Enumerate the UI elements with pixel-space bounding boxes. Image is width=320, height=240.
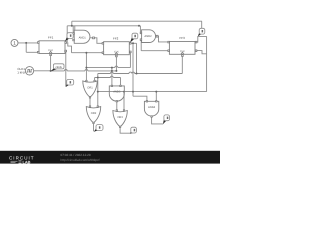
wire FF2 K rail (72, 52, 103, 54)
probe on FF3 Q (198, 28, 205, 36)
footer watermark bar (0, 151, 220, 164)
wire top feedback line (72, 20, 202, 22)
junction source split (25, 42, 27, 44)
wire OR2 output (93, 122, 95, 131)
probe on FF1 Qbar wire end (66, 79, 74, 87)
junction dots (25, 25, 157, 93)
clock source CLK1 (25, 67, 33, 75)
wire FF1 CLK drop (50, 56, 52, 71)
gate OR1 pointing down (83, 81, 97, 97)
junction clock rail AND3 (111, 70, 113, 72)
wire FF2 Q long drop (132, 43, 134, 96)
gate input output pin nubs (86, 80, 157, 127)
gate OR2 pointing down (86, 107, 100, 123)
svg-text:LAB: LAB (23, 159, 31, 164)
wire AND4 output route (152, 117, 164, 124)
wire OR3 right input drop (123, 92, 125, 111)
gate AND2 (142, 30, 156, 43)
wire FF1 Q up to feedback (66, 26, 68, 42)
wire FF2 Q stub (131, 42, 137, 44)
junction clock at FF1 (50, 70, 52, 72)
probe on FF1 Q (65, 33, 73, 42)
svg-text:OR2: OR2 (91, 112, 97, 115)
svg-text:OR1: OR1 (87, 86, 93, 89)
junction FF2 Q branch (132, 42, 134, 44)
junction rail1 AND3 (111, 67, 113, 69)
wire FF2 Qbar rail (86, 66, 130, 68)
junction Q3bar rail left (97, 91, 99, 93)
gate AND4 pointing down (144, 101, 158, 116)
wire AND1 corner drop (74, 26, 76, 30)
wire clock jog and rail 2 with hops (98, 57, 183, 74)
svg-text:1 kHz: 1 kHz (17, 70, 25, 74)
svg-text:AND1: AND1 (79, 37, 87, 40)
svg-text:07:02:41 / 2022.12.20: 07:02:41 / 2022.12.20 (61, 153, 91, 157)
gate OR3 pointing down (113, 111, 127, 127)
junction K rail OR1 (85, 52, 87, 54)
svg-text:AND4: AND4 (148, 106, 156, 109)
wire FF3 Qbar jog to right rail (196, 51, 207, 54)
svg-text:AND2: AND2 (144, 35, 152, 38)
svg-text:http://circuitlab.com/c/69kpcf: http://circuitlab.com/c/69kpcf (61, 158, 100, 162)
wire OR1 left input drop (85, 53, 87, 81)
wire FF1 Qbar drop to probe end (64, 51, 66, 87)
wire FF3 Q stub up over to right rail (196, 36, 207, 91)
wire OR2 right input drop (97, 74, 99, 107)
FF1 pins (38, 42, 67, 56)
junction AND4 left (132, 91, 134, 93)
wire AND3 left input drop (111, 68, 113, 87)
svg-text:FF2: FF2 (113, 37, 119, 41)
junction rail1 OR1 branch (85, 67, 87, 69)
wire OR3 output route (120, 126, 130, 133)
probe on OR3 output (130, 127, 136, 134)
wire AND4 right input drop (155, 92, 157, 102)
svg-text:clock: clock (56, 65, 63, 69)
wire FF3 K rail (141, 40, 168, 51)
source V1 logic one (11, 39, 18, 46)
wire Q3bar rail y91.6 (98, 91, 207, 93)
FF3 pins (168, 41, 197, 56)
wire AND1 upper input drop (72, 26, 74, 34)
wire top line drop into probe (201, 21, 203, 30)
junction lower rail (97, 77, 99, 79)
flip-flop FF3 (169, 42, 195, 55)
wire source 1 to FF1 J (18, 42, 38, 44)
svg-text:FF3: FF3 (180, 36, 186, 40)
svg-text:1: 1 (13, 41, 16, 46)
flip-flop FF1 (39, 41, 65, 54)
wire clock rail with hops (51, 70, 117, 71)
wire AND3 right input drop (120, 78, 122, 87)
wire FF1 Q staircase to K rail (66, 43, 72, 53)
wire OR1 right input drop (94, 78, 96, 81)
junction OR3 input (123, 91, 125, 93)
node flag clock (51, 64, 64, 72)
wire OR1 output into OR2 (89, 97, 91, 106)
junction feedback T (71, 25, 73, 27)
junction AND4 right (155, 91, 157, 93)
wire FF2 CLK drop (115, 57, 117, 71)
svg-text:CLK: CLK (114, 50, 119, 53)
wire source loop to FF1 K (26, 43, 38, 52)
FF2 pins (102, 43, 131, 57)
wire CLK1 source to junction (34, 70, 51, 72)
junction AND2 input (138, 25, 140, 27)
wire T branch up to top line (71, 21, 73, 26)
wire AND2 output loop to FF3 J (156, 36, 168, 42)
junction clock FF2 (115, 70, 117, 72)
probe on OR2 output (94, 125, 103, 132)
junction clock rail2 (136, 73, 138, 75)
svg-text:AND3: AND3 (113, 91, 121, 94)
probe on FF2 Q (130, 33, 138, 43)
gate AND1 (74, 30, 90, 43)
wire FF2 Qbar drop to rail (129, 52, 131, 68)
wire AND3 output to OR3 (116, 101, 118, 110)
probe on AND4 output (163, 115, 170, 124)
flip-flop FF2 (104, 42, 130, 55)
wire AND2 input drop (139, 26, 141, 33)
wire AND4 left input route (133, 96, 147, 101)
svg-text:CLK: CLK (48, 49, 53, 52)
svg-text:CLK: CLK (180, 50, 185, 53)
wire AND1 output loop to FF2 J (94, 38, 102, 44)
svg-text:FF1: FF1 (48, 36, 54, 40)
wire mystery drop to clock (136, 43, 138, 73)
wire lower rail y77.7 (95, 76, 121, 77)
gate AND3 pointing down (109, 86, 124, 101)
wire second feedback line (67, 25, 140, 27)
svg-text:OR3: OR3 (117, 116, 123, 119)
